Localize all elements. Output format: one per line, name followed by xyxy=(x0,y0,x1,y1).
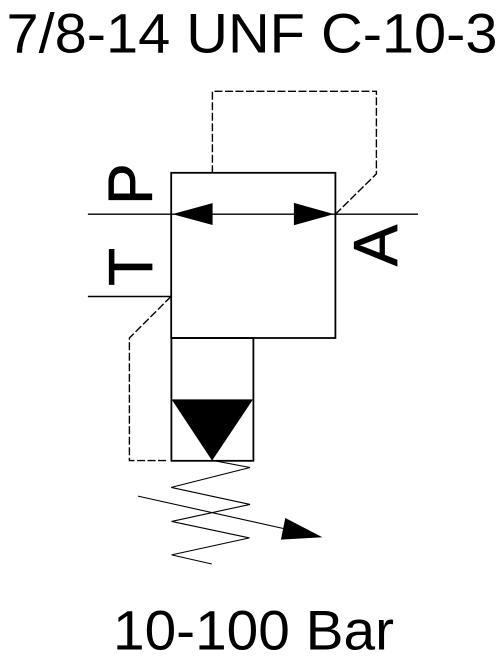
flow arrowhead left xyxy=(172,203,212,225)
svg-text:P: P xyxy=(96,163,165,204)
svg-text:T: T xyxy=(97,248,166,286)
poppet section box xyxy=(171,338,253,461)
svg-text:A: A xyxy=(342,224,411,266)
adjustment arrow shaft xyxy=(138,496,285,529)
svg-text:10-100 Bar: 10-100 Bar xyxy=(113,599,394,662)
adjustment arrowhead xyxy=(281,518,323,540)
cartridge envelope lower (dashed) xyxy=(129,297,171,461)
cartridge envelope upper (dashed) xyxy=(212,91,376,214)
wire port A xyxy=(335,213,418,215)
spring xyxy=(171,460,250,564)
poppet triangle xyxy=(172,399,253,460)
flow arrowhead right xyxy=(294,203,334,225)
wire port T xyxy=(88,296,171,298)
valve body box xyxy=(171,173,335,338)
flow path line P-A xyxy=(171,213,335,215)
svg-text:7/8-14 UNF C-10-3: 7/8-14 UNF C-10-3 xyxy=(7,2,498,65)
wire port P xyxy=(88,213,171,215)
